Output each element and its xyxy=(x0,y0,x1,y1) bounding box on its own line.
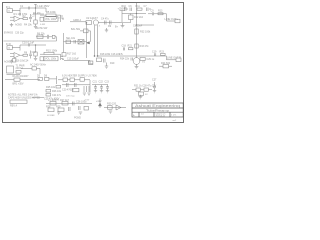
svg-text:GRID A: GRID A xyxy=(73,19,82,22)
capacitor C10 xyxy=(20,40,46,46)
caps cluster right xyxy=(83,86,91,95)
ground GND4 xyxy=(10,60,13,64)
capacitor C19 out coupling xyxy=(152,51,157,56)
svg-text:VOL 100k: VOL 100k xyxy=(45,58,57,61)
svg-text:C30 22p: C30 22p xyxy=(15,32,24,34)
power rail +250V xyxy=(118,7,126,22)
svg-text:1 of 1: 1 of 1 xyxy=(171,115,177,117)
mid row labels xyxy=(100,53,124,56)
resistor R24 termination xyxy=(159,62,172,68)
node junction A xyxy=(35,8,36,9)
svg-text:R21: R21 xyxy=(128,44,133,47)
connector J4 line out L xyxy=(165,18,181,23)
wire to line out R xyxy=(167,56,177,60)
svg-text:B+: B+ xyxy=(115,26,119,29)
svg-text:D5: D5 xyxy=(37,74,41,77)
svg-text:10V max: 10V max xyxy=(66,96,76,98)
regulator U3 xyxy=(58,78,90,82)
resistor R10 xyxy=(130,8,132,12)
resistor R19 xyxy=(97,58,116,65)
svg-text:0V REF: 0V REF xyxy=(47,115,55,117)
svg-text:R5 100k: R5 100k xyxy=(46,10,56,14)
svg-text:BAL 50k: BAL 50k xyxy=(71,28,81,31)
svg-text:2024-01-01: 2024-01-01 xyxy=(156,116,166,118)
svg-text:+12V: +12V xyxy=(96,100,102,103)
svg-text:R15 100k: R15 100k xyxy=(46,49,58,53)
svg-text:LINE OUT L: LINE OUT L xyxy=(165,18,179,21)
far right cap C27 xyxy=(152,79,157,93)
resistor R23 xyxy=(160,51,166,56)
fuse F1 xyxy=(7,71,22,75)
svg-text:D6: D6 xyxy=(44,74,48,77)
capacitor C2 vertical xyxy=(29,14,35,22)
resistor R32 plate xyxy=(135,29,151,34)
capacitor C18 xyxy=(122,44,127,50)
resistor R1 xyxy=(14,12,28,16)
potentiometer VR2 xyxy=(44,56,58,60)
resistor R3 body xyxy=(34,14,37,29)
svg-text:1.0: 1.0 xyxy=(141,114,145,116)
svg-text:R26 10k: R26 10k xyxy=(52,90,62,93)
wire J1 to node xyxy=(12,8,20,14)
svg-text:C22: C22 xyxy=(99,81,104,84)
svg-text:1: 1 xyxy=(92,19,93,21)
connector J2 (line in right) xyxy=(6,43,13,49)
resistor R15 xyxy=(44,49,58,55)
wire R5 to right xyxy=(40,15,61,22)
capacitor C9 xyxy=(152,12,153,15)
svg-text:Ashcat Engineering: Ashcat Engineering xyxy=(135,104,180,108)
tube V2 cathode parts xyxy=(62,52,77,56)
capacitor C4 xyxy=(101,18,109,25)
notes text block xyxy=(8,94,40,108)
svg-text:SEL 10k: SEL 10k xyxy=(66,37,76,40)
bus wires down xyxy=(95,25,98,56)
capacitor C3 xyxy=(58,16,65,20)
net labels row xyxy=(15,24,32,27)
tube V1 envelope xyxy=(93,20,98,25)
svg-text:R34 22k: R34 22k xyxy=(120,58,130,61)
wire rect out xyxy=(49,76,57,84)
wire J2 to node xyxy=(12,45,20,51)
svg-text:R28: R28 xyxy=(46,106,51,109)
wire top filter xyxy=(122,13,146,15)
resistor R11 xyxy=(137,8,142,10)
svg-text:C9: C9 xyxy=(151,10,155,13)
svg-text:R3 47k: R3 47k xyxy=(33,12,41,15)
diode D6 xyxy=(44,74,49,80)
resistor R36 grid stop xyxy=(71,28,91,42)
ground GND3 xyxy=(121,23,125,28)
resistor R35 chain xyxy=(34,45,37,61)
svg-text:C1: C1 xyxy=(20,5,24,8)
capacitor C5 xyxy=(108,21,112,28)
svg-text:C19: C19 xyxy=(152,51,157,54)
resistor R21 xyxy=(128,44,133,49)
svg-text:AC 240V 50Hz: AC 240V 50Hz xyxy=(30,63,47,66)
svg-text:R13: R13 xyxy=(158,10,163,13)
svg-text:C23: C23 xyxy=(105,81,110,84)
svg-text:IN L: IN L xyxy=(6,6,11,9)
ground GND5 xyxy=(105,63,108,69)
capacitor C12 vertical xyxy=(29,51,37,59)
svg-text:0.5W: 0.5W xyxy=(40,24,46,26)
channel B upper components xyxy=(36,27,57,41)
plate rail wire xyxy=(137,3,155,52)
net label row B xyxy=(4,60,29,64)
svg-text:MUTE SW: MUTE SW xyxy=(36,27,48,30)
lower PSU row xyxy=(46,99,92,106)
top right filter: text row xyxy=(122,5,148,8)
ground GND6 xyxy=(135,67,139,69)
tube V2 envelope xyxy=(133,58,145,65)
connector J1 (line in left) xyxy=(6,6,13,12)
filter caps C21 C22 C23 xyxy=(92,81,110,93)
label mains xyxy=(13,75,30,78)
svg-text:0.1uF 250V: 0.1uF 250V xyxy=(37,5,50,8)
wire tube plate xyxy=(98,21,122,23)
svg-text:C21: C21 xyxy=(93,81,98,84)
wire R15 right xyxy=(40,54,61,60)
title block xyxy=(132,103,183,117)
connector J5 line out R xyxy=(167,57,181,62)
heater wire row2 xyxy=(62,80,90,92)
transformer T1 xyxy=(7,64,25,73)
ground GND2 xyxy=(105,28,108,32)
resistor R2 xyxy=(23,15,28,20)
svg-text:C18: C18 xyxy=(122,44,127,47)
svg-text:C29 1u: C29 1u xyxy=(147,58,155,61)
diode bridge box xyxy=(5,78,40,86)
wire channel A to R5 xyxy=(33,13,44,15)
relay K3 xyxy=(13,59,17,63)
svg-text:R33 47k: R33 47k xyxy=(140,45,150,48)
power tap node xyxy=(34,5,37,9)
svg-text:rev2: rev2 xyxy=(173,119,177,122)
text row xyxy=(62,88,79,91)
op-amp U1A xyxy=(10,16,23,22)
svg-text:R24 600: R24 600 xyxy=(161,62,171,65)
capacitor C1 xyxy=(20,5,50,10)
svg-text:R32 100k: R32 100k xyxy=(140,31,151,34)
border frame xyxy=(3,3,184,123)
capacitor C13 xyxy=(61,57,65,60)
svg-text:R12 2k2: R12 2k2 xyxy=(134,16,144,19)
relay K1 xyxy=(40,17,44,21)
svg-text:R29: R29 xyxy=(56,106,61,109)
capacitor C17 xyxy=(104,59,106,63)
svg-text:AGND: AGND xyxy=(15,24,22,27)
svg-text:PGND: PGND xyxy=(74,117,81,120)
svg-text:R11: R11 xyxy=(136,5,141,8)
op-amp U1B xyxy=(10,53,23,59)
svg-text:R23: R23 xyxy=(160,51,165,54)
node junction B xyxy=(35,45,36,46)
coupling network channel A out xyxy=(151,10,164,13)
svg-text:L1 10H: L1 10H xyxy=(48,99,56,102)
middle selector wire xyxy=(64,37,90,44)
svg-text:6.3V HEATER SUPPLY U3 7806: 6.3V HEATER SUPPLY U3 7806 xyxy=(62,74,97,77)
capacitor C15 xyxy=(67,58,93,65)
diode D5 xyxy=(37,74,42,80)
svg-text:LINE OUT R: LINE OUT R xyxy=(167,57,181,60)
svg-text:AGND: AGND xyxy=(4,61,11,64)
svg-text:V2: V2 xyxy=(142,61,146,64)
svg-text:R17 1k5: R17 1k5 xyxy=(67,52,77,55)
resistor R13 xyxy=(158,13,163,15)
B+ supply row: stacked resistors xyxy=(44,85,62,100)
svg-text:47k: 47k xyxy=(119,53,124,56)
svg-text:R27 4k7: R27 4k7 xyxy=(60,99,70,102)
capacitor C7 xyxy=(147,8,152,12)
long net wire channel B xyxy=(4,40,57,42)
svg-text:R4 10k: R4 10k xyxy=(24,24,32,27)
svg-text:D1-D4 1N4007: D1-D4 1N4007 xyxy=(13,75,30,78)
svg-text:R31 1k C28 47u 25V: R31 1k C28 47u 25V xyxy=(134,85,157,88)
svg-text:R30 220: R30 220 xyxy=(107,103,117,106)
svg-text:C24 47u: C24 47u xyxy=(52,94,62,97)
svg-text:BYPASS: BYPASS xyxy=(4,31,13,34)
wire to out A xyxy=(148,14,175,21)
svg-text:R25 10k: R25 10k xyxy=(46,86,56,89)
fuse F2 xyxy=(21,67,40,74)
wire left xyxy=(32,97,44,99)
potentiometer VR1 xyxy=(44,17,58,21)
tube V1 heater box xyxy=(86,16,98,24)
svg-text:0V: 0V xyxy=(145,94,148,96)
small ground cluster right xyxy=(132,85,157,99)
wire feedback vertical xyxy=(86,23,88,58)
lower PSU row 2 xyxy=(46,106,88,120)
resistor R5 xyxy=(46,10,56,16)
svg-text:REV A: REV A xyxy=(10,105,17,108)
title row3 texts xyxy=(133,112,177,117)
resistor R12 vertical xyxy=(123,14,144,23)
capacitor C6 xyxy=(124,7,128,11)
svg-text:C12: C12 xyxy=(32,51,37,54)
svg-text:240:12: 240:12 xyxy=(16,67,24,70)
svg-text:R19: R19 xyxy=(110,62,115,65)
svg-text:C14: C14 xyxy=(24,60,29,63)
svg-text:IN R: IN R xyxy=(6,43,11,46)
ground GND1 xyxy=(10,23,13,27)
VCC arrow subcircuit xyxy=(96,99,126,114)
relay K2 xyxy=(40,57,44,61)
resistor R33 xyxy=(135,44,149,48)
svg-text:C2: C2 xyxy=(32,15,36,18)
svg-text:TubePreamp: TubePreamp xyxy=(146,109,170,113)
svg-text:R9: R9 xyxy=(108,25,112,28)
svg-text:VOL 100k: VOL 100k xyxy=(45,18,57,21)
wire mid long net xyxy=(98,52,167,56)
wire cathode xyxy=(64,33,91,64)
svg-text:C4 47u: C4 47u xyxy=(101,18,109,21)
svg-text:3: 3 xyxy=(99,26,100,28)
svg-text:BR1 +35V: BR1 +35V xyxy=(13,83,24,86)
wire from C1 down xyxy=(36,8,47,14)
svg-text:C15 100uF: C15 100uF xyxy=(67,58,79,61)
resistor R14 xyxy=(23,51,28,56)
svg-text:C10 0.1uF: C10 0.1uF xyxy=(22,40,35,44)
wire tube V2 cathode down xyxy=(136,56,138,67)
below-wire components xyxy=(120,58,155,62)
svg-text:C26 100u: C26 100u xyxy=(76,100,87,103)
svg-text:C27: C27 xyxy=(152,79,157,82)
svg-text:A: A xyxy=(133,114,135,117)
svg-text:CAPS 400V UNLESS NOTED: CAPS 400V UNLESS NOTED xyxy=(8,97,40,100)
svg-text:R18 220k: R18 220k xyxy=(100,53,111,56)
wire to tube V1 grid xyxy=(70,21,86,23)
